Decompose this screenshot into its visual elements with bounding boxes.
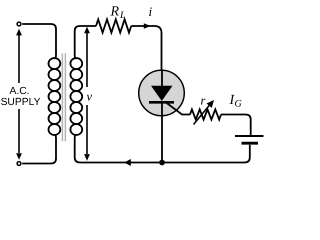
SCR gate lead (166, 103, 190, 115)
junction node (SCR cathode / bottom wire) (159, 160, 165, 166)
svg-text:v: v (87, 90, 93, 104)
wire: rheostat to battery positive (221, 115, 251, 136)
SCR cathode bar (149, 101, 174, 104)
current arrow i (arrowhead on wire) (144, 23, 151, 29)
transformer primary coil (49, 58, 61, 135)
label IG (229, 93, 242, 110)
svg-text:i: i (149, 4, 153, 19)
label r (201, 94, 206, 108)
svg-text:L: L (119, 10, 126, 21)
svg-text:A.C.: A.C. (9, 86, 29, 97)
voltage arrow v (down head) (84, 105, 90, 161)
wire: SCR cathode down to bottom node (161, 102, 163, 162)
wire with current arrow i: RL to SCR anode corner (131, 26, 161, 71)
resistor RL (96, 19, 131, 32)
transformer core (62, 53, 65, 141)
SCR U1 (thyristor) body circle (139, 70, 185, 116)
voltage arrow v (up head) (84, 27, 90, 87)
battery B1 positive plate (long) (235, 135, 264, 137)
svg-text:G: G (235, 99, 242, 110)
label i (149, 4, 153, 19)
transformer secondary coil (70, 58, 82, 135)
wire: secondary top lead up to RL (75, 26, 96, 59)
A.C. SUPPLY source arrow (upper, pointing up to terminal) (16, 29, 22, 83)
svg-text:r: r (201, 94, 206, 108)
SCR triangle (anode-cathode) (151, 86, 173, 101)
wire: top-left terminal to transformer primary top (22, 24, 56, 59)
terminal (bottom-left, open circle) (17, 162, 21, 166)
svg-text:R: R (110, 5, 120, 20)
A.C. SUPPLY source arrow (lower, pointing down to terminal) (16, 109, 22, 160)
battery B1 negative plate (short, thick) (242, 142, 259, 145)
label RL (110, 5, 127, 22)
wire: battery negative down to bottom wire (75, 135, 250, 163)
wire: bottom-left terminal to transformer primary bottom (22, 135, 56, 164)
label A.C. SUPPLY (1, 86, 41, 108)
SCR anode lead inside circle (161, 70, 163, 87)
rheostat r (variable resistor) (190, 109, 221, 119)
svg-text:SUPPLY: SUPPLY (1, 97, 41, 108)
label v (87, 90, 93, 104)
bottom wire current arrow (pointing left) (124, 159, 131, 166)
rheostat arrow (194, 100, 215, 125)
terminal (top-left, open circle) (17, 22, 21, 26)
